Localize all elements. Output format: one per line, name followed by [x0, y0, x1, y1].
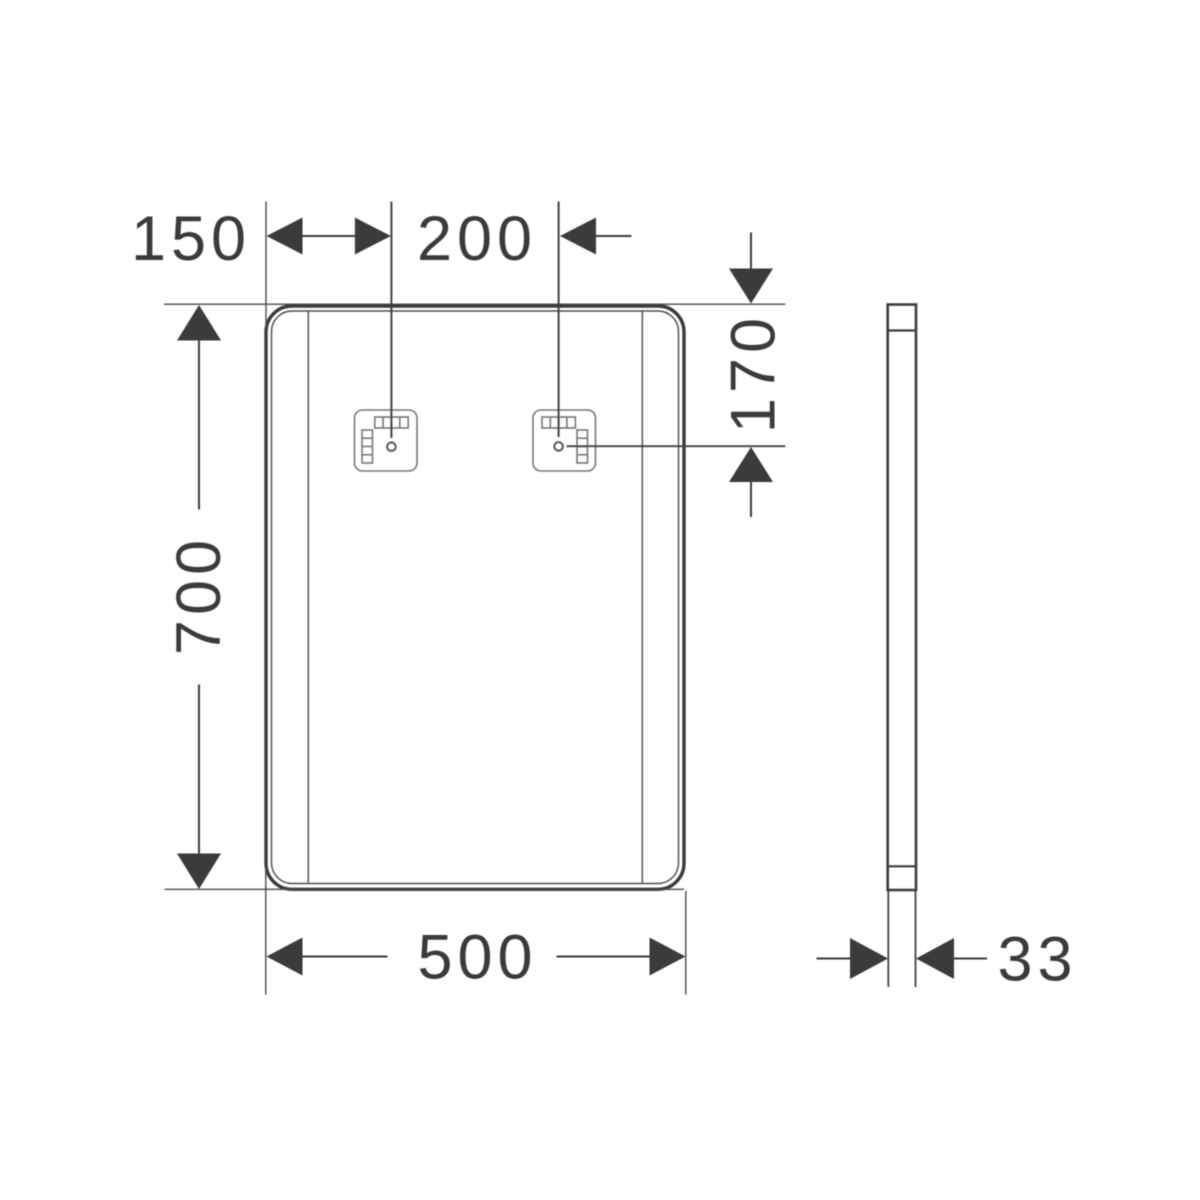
svg-text:700: 700 — [164, 535, 234, 655]
svg-text:500: 500 — [417, 923, 537, 993]
svg-text:150: 150 — [131, 204, 251, 274]
svg-text:33: 33 — [997, 925, 1077, 995]
svg-text:200: 200 — [417, 204, 537, 274]
svg-text:170: 170 — [719, 313, 789, 433]
